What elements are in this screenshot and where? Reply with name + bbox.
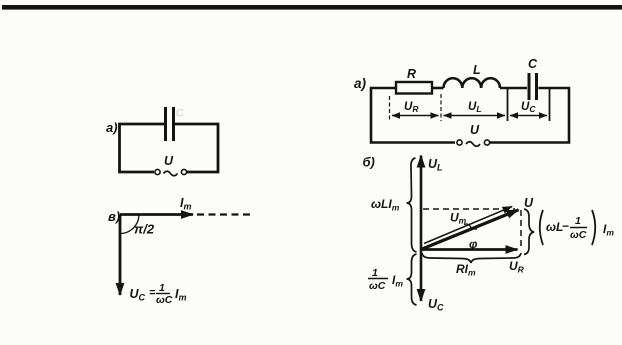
svg-text:а): а): [106, 120, 118, 135]
arrow UR span: [392, 115, 439, 117]
resistor R: [396, 82, 432, 94]
phasor Uc arrow (downward): [119, 215, 122, 296]
dashed projection lines: [423, 209, 521, 250]
svg-text:C: C: [176, 107, 184, 119]
svg-text:UC: UC: [428, 297, 444, 313]
phasor UR arrow (RIm): [421, 248, 518, 251]
svg-text:Im: Im: [392, 273, 403, 289]
underbrace RIm: [422, 253, 521, 263]
arrow UL span: [444, 115, 506, 117]
angle arc pi/2: [120, 215, 139, 234]
svg-text:−: −: [562, 219, 569, 233]
label Um with pointer squiggle: [450, 211, 477, 230]
svg-text:ωC: ωC: [156, 294, 173, 306]
inductor L: [444, 78, 501, 88]
svg-text:UR: UR: [404, 101, 419, 114]
svg-text:R: R: [407, 67, 416, 81]
svg-text:UC: UC: [521, 101, 536, 114]
brace wLIm (left upper): [407, 158, 417, 252]
svg-text:C: C: [528, 57, 538, 71]
right brace for reactive component: [524, 209, 534, 255]
svg-text:Um: Um: [450, 211, 467, 226]
svg-text:ωC: ωC: [369, 280, 386, 292]
svg-text:Im: Im: [603, 222, 614, 238]
svg-text:UC: UC: [130, 287, 146, 303]
svg-text:φ: φ: [469, 237, 478, 251]
svg-text:а): а): [354, 76, 367, 91]
svg-text:Im: Im: [180, 196, 192, 212]
phasor Im arrow: [120, 213, 193, 216]
wire (right circuit loop): [371, 88, 569, 143]
svg-text:ωLIm: ωLIm: [371, 197, 400, 213]
svg-text:π/2: π/2: [134, 222, 155, 237]
brace (1/wC)Im (left lower): [407, 254, 417, 305]
svg-text:U: U: [470, 123, 480, 137]
svg-text:1: 1: [575, 215, 581, 227]
capacitor C (right circuit): [529, 73, 537, 100]
label (1/wC)Im: [368, 267, 403, 292]
phasor Um thin arrow: [424, 207, 512, 244]
svg-text:1: 1: [372, 267, 378, 279]
label (wL - 1/wC) Im formula: [540, 210, 615, 245]
ac source U (left circuit): terminals and tilde: [155, 169, 187, 175]
svg-text:=: =: [149, 287, 156, 299]
svg-text:L: L: [473, 63, 481, 77]
svg-text:б): б): [363, 155, 375, 170]
capacitor C1 (left circuit): [166, 107, 174, 141]
svg-text:UL: UL: [428, 157, 443, 173]
dashed extension of Im axis: [197, 213, 252, 215]
phasor U resultant thick arrow: [422, 210, 519, 249]
svg-text:ωC: ωC: [570, 229, 587, 241]
svg-text:U: U: [524, 196, 534, 210]
wire (left circuit loop): [120, 124, 219, 172]
svg-text:U: U: [164, 154, 174, 168]
svg-text:1: 1: [159, 282, 165, 294]
svg-text:UL: UL: [468, 101, 482, 114]
svg-text:в): в): [108, 209, 120, 224]
ac source U (right circuit): terminals and tilde: [457, 140, 490, 146]
svg-text:RIm: RIm: [456, 262, 476, 278]
label Uc = (1/wC) Im: [130, 282, 187, 306]
svg-text:Im: Im: [175, 287, 187, 303]
svg-text:ωL: ωL: [546, 220, 563, 234]
tick marks for voltage spans: [390, 88, 550, 121]
svg-text:UR: UR: [509, 259, 525, 275]
axis UL/UC vertical double arrow: [420, 156, 423, 302]
arrow UC span: [510, 115, 547, 117]
